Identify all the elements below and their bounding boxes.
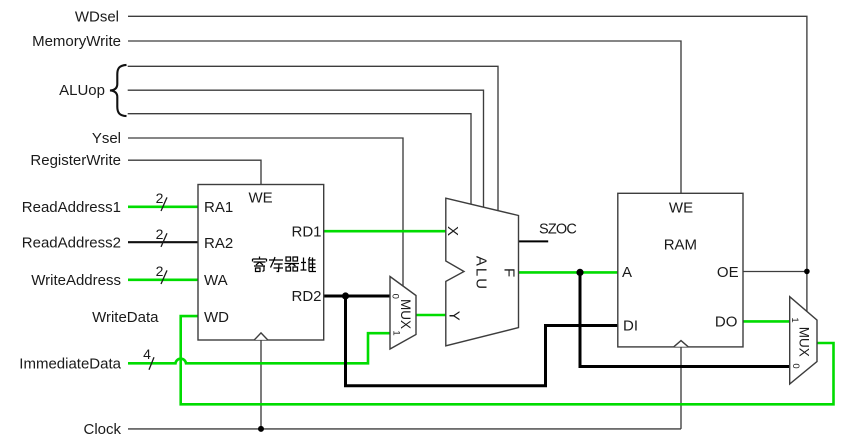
svg-text:RD1: RD1 [291,223,321,240]
svg-text:F: F [501,268,518,277]
svg-text:WE: WE [249,190,273,207]
svg-text:MUX: MUX [797,327,812,357]
svg-text:WD: WD [204,309,229,326]
svg-text:RD2: RD2 [291,288,321,305]
svg-text:2: 2 [156,190,164,206]
svg-text:1: 1 [789,317,800,322]
svg-text:ImmediateData: ImmediateData [19,355,121,372]
svg-text:0: 0 [790,363,801,368]
svg-text:WDsel: WDsel [75,8,119,25]
svg-text:2: 2 [156,263,164,279]
svg-text:RA1: RA1 [204,199,233,216]
svg-text:RA2: RA2 [204,235,233,252]
svg-text:0: 0 [389,294,400,299]
svg-text:Y: Y [446,311,463,321]
svg-text:4: 4 [143,346,151,362]
svg-text:RAM: RAM [664,237,697,254]
svg-text:1: 1 [390,330,401,335]
svg-text:SZOC: SZOC [539,221,576,237]
svg-text:DI: DI [623,318,638,335]
svg-text:X: X [444,226,461,236]
svg-text:ReadAddress1: ReadAddress1 [22,199,121,216]
svg-text:OE: OE [717,264,739,281]
svg-text:ReadAddress2: ReadAddress2 [22,235,121,252]
svg-text:MemoryWrite: MemoryWrite [32,33,121,50]
svg-text:RegisterWrite: RegisterWrite [30,152,121,169]
svg-text:WriteAddress: WriteAddress [31,272,121,289]
svg-text:2: 2 [156,226,164,242]
svg-text:WE: WE [669,200,693,217]
svg-text:Ysel: Ysel [92,130,121,147]
svg-text:Clock: Clock [83,421,121,438]
svg-text:ALU: ALU [473,256,490,291]
svg-text:DO: DO [715,314,738,331]
svg-text:MUX: MUX [398,299,413,329]
svg-text:A: A [622,264,632,281]
svg-text:WA: WA [204,272,228,289]
svg-text:ALUop: ALUop [59,82,105,99]
svg-text:WriteData: WriteData [92,309,159,326]
